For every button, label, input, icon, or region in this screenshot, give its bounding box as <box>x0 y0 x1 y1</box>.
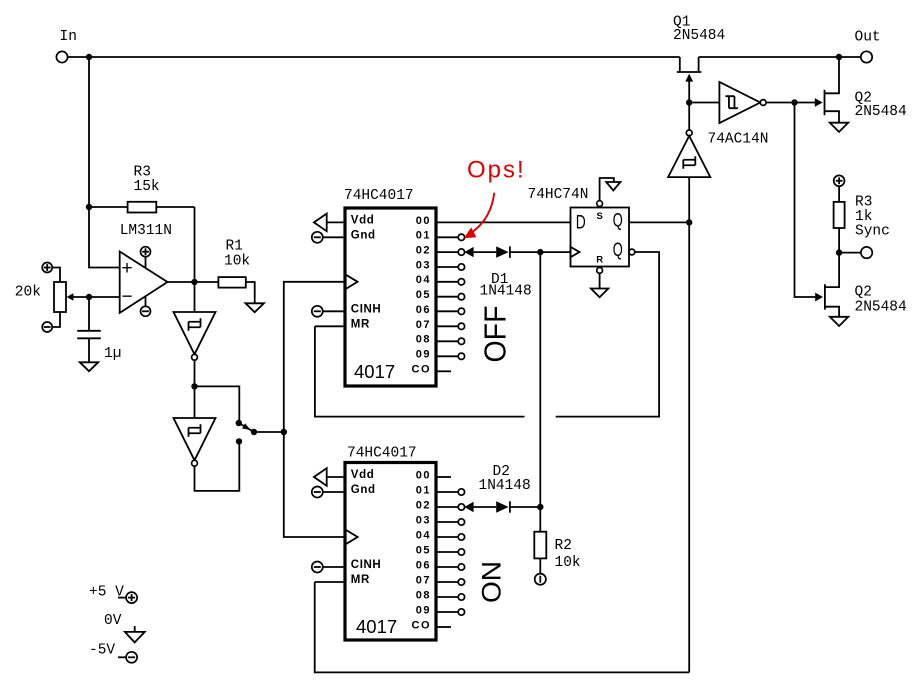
pin 05 U2 <box>416 289 465 301</box>
svg-text:04: 04 <box>416 274 431 286</box>
node junction input <box>86 54 92 60</box>
resistor R3 15k <box>89 165 195 213</box>
node junction inverter chain <box>191 383 197 389</box>
svg-text:74HC4017: 74HC4017 <box>347 446 417 462</box>
node junction D2/R2 <box>537 504 543 510</box>
wire wiper to minus input <box>70 296 120 298</box>
wire inverter C input long vertical <box>688 177 690 672</box>
svg-text:-5V: -5V <box>89 643 115 659</box>
wire junction to capacitor <box>88 297 90 331</box>
svg-text:CO: CO <box>412 363 432 375</box>
wire switch pole to clock junction <box>254 431 284 433</box>
svg-text:1N4148: 1N4148 <box>479 478 531 494</box>
diode D1 1N4148 <box>480 246 532 299</box>
arrow gate Q2 upper <box>815 98 823 107</box>
power -5V symbol at Gnd U3 <box>312 487 323 498</box>
pin MR U2 <box>315 318 370 330</box>
wire D2 to OR junction <box>510 506 540 508</box>
power 0V arrow at Vdd U2 <box>314 214 327 232</box>
svg-text:Gnd: Gnd <box>351 484 376 496</box>
pin 01 U3 <box>416 484 465 496</box>
pin CO U2 <box>412 363 452 375</box>
svg-text:74HC74N: 74HC74N <box>528 187 589 203</box>
wire R3 to output node <box>194 207 196 282</box>
pin 02 U3 <box>416 499 465 511</box>
pin 00 U3 <box>416 469 451 481</box>
inverter A 74AC14N schmitt down <box>174 312 216 360</box>
node junction sync <box>836 249 842 255</box>
wire S to 0V <box>600 178 614 201</box>
wire 00 U2 to D input <box>437 221 571 223</box>
svg-text:D: D <box>576 212 586 233</box>
svg-text:1µ: 1µ <box>104 346 121 362</box>
wire inverter D out to Q2 lower gate <box>795 103 816 298</box>
svg-text:09: 09 <box>416 604 431 616</box>
svg-text:2N5484: 2N5484 <box>673 28 725 44</box>
wire R to 0V <box>599 273 601 288</box>
power 0V at S pin <box>606 182 620 191</box>
wire junction to switch upper contact <box>195 386 240 420</box>
pin 09 U3 <box>416 604 465 616</box>
power -5V symbol at CINH U3 <box>312 562 323 573</box>
wire pin02 arrow to D1 <box>474 251 497 253</box>
wire Qbar to MR of U2 <box>556 252 659 417</box>
svg-text:1N4148: 1N4148 <box>480 284 532 300</box>
svg-text:01: 01 <box>416 484 431 496</box>
svg-text:06: 06 <box>416 559 431 571</box>
wire OR vertical <box>539 252 541 532</box>
arrow Ops red curve <box>464 193 495 239</box>
svg-text:Vdd: Vdd <box>351 469 375 481</box>
pin Qbar bubble U4 <box>629 249 635 255</box>
inverter C 74AC14N schmitt up <box>668 130 710 177</box>
svg-text:MR: MR <box>351 574 370 586</box>
pin 08 U2 <box>416 334 465 346</box>
pin 09 U2 <box>416 349 465 361</box>
svg-text:06: 06 <box>416 304 431 316</box>
svg-text:OFF: OFF <box>478 306 513 363</box>
node junction op-amp output <box>191 279 197 285</box>
svg-text:Ops!: Ops! <box>467 157 526 184</box>
counter U2 74HC4017 upper <box>344 188 436 386</box>
svg-text:09: 09 <box>416 349 431 361</box>
transistor Q1 2N5484 <box>673 15 725 82</box>
pin 07 U2 <box>416 319 465 331</box>
svg-text:10k: 10k <box>555 555 581 571</box>
wire top rail to Q1 drain <box>89 56 680 58</box>
svg-text:2N5484: 2N5484 <box>855 104 907 120</box>
pin 04 U3 <box>416 529 465 541</box>
svg-text:MR: MR <box>351 318 370 330</box>
pin Gnd U2 <box>323 229 376 241</box>
power legend -5V <box>89 643 137 663</box>
flip-flop U4 74HC74N <box>528 187 630 267</box>
pin Vdd U2 <box>327 214 375 226</box>
power -5V symbol at R2 <box>535 574 546 585</box>
pin 06 U3 <box>416 559 465 571</box>
node junction wiper/cap <box>86 294 92 300</box>
wire inverter A out to junction <box>194 360 196 386</box>
potentiometer 20k <box>15 263 74 333</box>
pin Vdd U3 <box>327 469 375 481</box>
pin 01 U2 <box>416 230 465 242</box>
pin MR U3 <box>315 574 370 586</box>
node junction Q/inverter input <box>686 219 692 225</box>
svg-text:CINH: CINH <box>351 559 382 571</box>
wire top rail Q1 to Out <box>699 56 839 58</box>
resistor R2 10k <box>534 532 580 574</box>
svg-text:08: 08 <box>416 589 431 601</box>
ground 0V at Q2 lower <box>830 317 848 326</box>
svg-text:05: 05 <box>416 289 431 301</box>
node junction D1/D2 OR <box>537 249 543 255</box>
svg-text:00: 00 <box>416 469 431 481</box>
wire to counter 2 clock <box>284 432 346 537</box>
wire junction to Out terminal <box>839 56 861 58</box>
node junction clock distribution <box>281 429 287 435</box>
transistor Q2 2N5484 upper <box>825 57 907 123</box>
wire MR U2 run with hop <box>315 326 525 416</box>
inverter B 74AC14N schmitt down <box>174 418 216 466</box>
svg-text:04: 04 <box>416 529 431 541</box>
power -5V symbol at Gnd U2 <box>312 232 323 243</box>
power 0V arrow at Vdd U3 <box>314 468 327 486</box>
capacitor C1 1u <box>77 331 121 362</box>
wire gate node to inverter D <box>689 102 719 104</box>
wire left vertical input feed <box>89 57 120 268</box>
wire capacitor to ground <box>88 338 90 362</box>
svg-text:Q: Q <box>613 211 623 232</box>
svg-text:CO: CO <box>412 619 432 631</box>
svg-text:Out: Out <box>855 30 881 46</box>
svg-text:Gnd: Gnd <box>351 229 376 241</box>
ground 0V at R1 <box>246 303 264 312</box>
wire inverter D out <box>766 102 817 104</box>
wire junction to sync terminal <box>839 252 861 254</box>
svg-text:2N5484: 2N5484 <box>855 300 907 316</box>
arrow into pin 02 U3 <box>464 502 473 512</box>
svg-text:02: 02 <box>416 499 431 511</box>
pin 06 U2 <box>416 304 465 316</box>
pin 03 U3 <box>416 514 465 526</box>
svg-text:02: 02 <box>416 245 431 257</box>
svg-text:4017: 4017 <box>354 361 395 382</box>
wire Q output to gate node <box>629 221 689 223</box>
wire to counter 1 clock <box>284 282 345 432</box>
pin Gnd U3 <box>323 484 376 496</box>
svg-text:07: 07 <box>416 319 431 331</box>
wire output node to inverter A <box>194 282 196 312</box>
wire inverter B out to switch lower contact <box>195 445 240 491</box>
pin CO U3 <box>412 619 452 631</box>
resistor R1 10k <box>218 239 254 304</box>
wire op-amp output <box>168 281 219 283</box>
diode D2 1N4148 <box>479 464 531 513</box>
wire bottom run to MR U3 <box>315 582 690 672</box>
wire inverter C out to Q1 gate <box>688 81 690 130</box>
svg-text:ON: ON <box>477 561 507 603</box>
node Sync terminal <box>861 247 872 258</box>
inverter D 74AC14N schmitt right <box>708 82 769 148</box>
wire junction to inverter B <box>194 386 196 418</box>
svg-text:00: 00 <box>416 215 431 227</box>
svg-text:4017: 4017 <box>356 616 397 637</box>
svg-text:Q2: Q2 <box>855 285 872 301</box>
resistor R3 1k Sync <box>834 186 890 252</box>
svg-text:74HC4017: 74HC4017 <box>344 188 414 204</box>
svg-text:08: 08 <box>416 334 431 346</box>
svg-text:74AC14N: 74AC14N <box>708 132 769 148</box>
svg-text:15k: 15k <box>134 179 160 195</box>
power -5V symbol at CINH U2 <box>312 306 323 317</box>
node junction Out <box>836 54 842 60</box>
svg-text:05: 05 <box>416 544 431 556</box>
node In terminal <box>56 29 77 63</box>
svg-text:0V: 0V <box>104 613 122 629</box>
svg-text:Q: Q <box>613 240 623 261</box>
wire D1 to flip-flop clock <box>510 251 571 253</box>
svg-text:07: 07 <box>416 574 431 586</box>
svg-text:CINH: CINH <box>351 304 382 316</box>
pin 07 U3 <box>416 574 465 586</box>
node junction R3 feedback tap <box>86 204 92 210</box>
node junction Q1 gate / inverter D input <box>686 99 692 105</box>
svg-text:Sync: Sync <box>855 224 890 240</box>
svg-text:In: In <box>60 29 77 45</box>
arrow into pin 02 U2 <box>464 247 473 257</box>
node junction inverter D out <box>791 99 797 105</box>
node Out terminal <box>855 30 881 63</box>
svg-text:S: S <box>597 211 603 222</box>
svg-text:Vdd: Vdd <box>351 214 375 226</box>
power 0V at R pin <box>591 289 608 298</box>
svg-text:R1: R1 <box>226 239 243 255</box>
ground 0V below capacitor <box>80 362 98 371</box>
ground 0V at Q2 upper <box>830 123 848 132</box>
pin S bubble U4 <box>597 201 603 207</box>
wire pin02 arrow to D2 <box>474 506 497 508</box>
power legend 0V <box>104 613 145 642</box>
svg-text:20k: 20k <box>15 285 41 301</box>
pin 05 U3 <box>416 544 465 556</box>
arrow gate Q2 lower <box>815 293 823 302</box>
svg-text:10k: 10k <box>224 254 250 270</box>
counter U3 74HC4017 lower <box>345 446 436 641</box>
svg-text:R: R <box>596 255 603 266</box>
svg-text:+: + <box>122 258 133 279</box>
svg-text:03: 03 <box>416 514 431 526</box>
pin CINH U2 <box>323 304 382 316</box>
power +5V at R3 sync <box>834 175 845 186</box>
svg-text:01: 01 <box>416 230 431 242</box>
op-amp U1 LM311N <box>120 223 172 316</box>
svg-text:03: 03 <box>416 259 431 271</box>
transistor Q2 2N5484 lower <box>825 253 907 317</box>
pin 04 U2 <box>416 274 465 286</box>
svg-text:LM311N: LM311N <box>120 223 172 239</box>
pin 03 U2 <box>416 259 465 271</box>
svg-text:R2: R2 <box>555 538 572 554</box>
pin CINH U3 <box>323 559 382 571</box>
pin 02 U2 <box>416 245 465 257</box>
switch S1 <box>236 420 258 445</box>
pin R bubble U4 <box>597 268 603 274</box>
pin 08 U3 <box>416 589 465 601</box>
svg-text:−: − <box>122 287 133 308</box>
wire In to junction <box>68 56 89 58</box>
power legend +5V <box>89 585 137 604</box>
